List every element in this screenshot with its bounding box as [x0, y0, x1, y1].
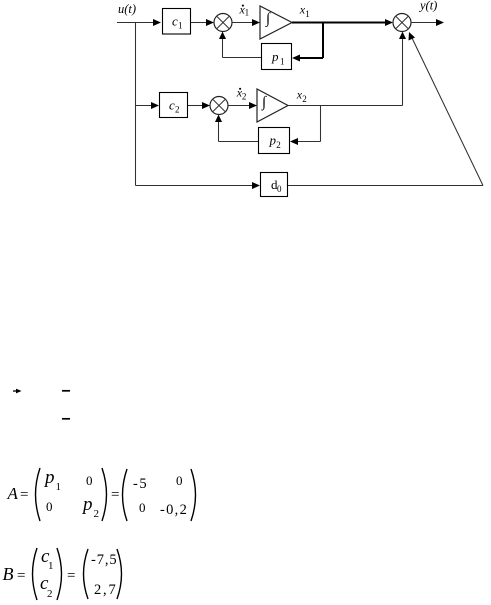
svg-text:=: = [111, 487, 119, 503]
equation A : close paren 2 [191, 469, 196, 521]
block p1 [262, 44, 292, 70]
svg-text:2: 2 [47, 588, 53, 600]
equation A : open paren 1 [36, 468, 41, 521]
svg-text:2: 2 [276, 140, 281, 150]
svg-text:0: 0 [139, 500, 146, 515]
output summing junction S3 [393, 14, 411, 32]
svg-text:p: p [81, 494, 93, 515]
svg-text:p: p [271, 49, 279, 64]
svg-text:1: 1 [178, 21, 183, 31]
svg-text:1: 1 [280, 57, 285, 67]
svg-text:1: 1 [245, 8, 250, 18]
wire output arrow y(t) [411, 22, 437, 24]
svg-text:2: 2 [175, 105, 180, 115]
wire summing junction 2 to integrator 2 [228, 105, 249, 107]
wire x1 output bold to output summing junction [292, 22, 386, 24]
svg-text:0: 0 [46, 499, 53, 514]
svg-text:y(t): y(t) [418, 0, 437, 13]
svg-text:-7,5: -7,5 [91, 552, 118, 568]
block d0 [261, 173, 288, 197]
svg-text:B: B [3, 564, 14, 584]
equation A : close paren 1 [102, 468, 107, 521]
svg-text:2,7: 2,7 [94, 582, 118, 598]
wire x2 output to output summing junction (right then up) [288, 105, 403, 107]
wire d0 output to bottom right corner [288, 185, 483, 187]
svg-text:p: p [269, 133, 277, 148]
svg-text:A: A [7, 484, 19, 503]
svg-text:2: 2 [94, 508, 100, 520]
wire u(t) input horizontal [117, 22, 154, 24]
wire x2 feedback down to p2 [320, 106, 322, 142]
stray overbar mark 1 [62, 390, 70, 392]
integrator 2 triangle [257, 89, 288, 122]
svg-text:u(t): u(t) [118, 2, 136, 16]
equation B : open paren 1 [33, 548, 38, 600]
svg-text:-5: -5 [133, 476, 148, 492]
svg-text:2: 2 [242, 92, 247, 102]
svg-text:0: 0 [86, 473, 93, 488]
svg-text:=: = [20, 487, 28, 503]
equation B : close paren 1 [57, 548, 62, 600]
svg-text:1: 1 [305, 9, 310, 19]
svg-text:-0,2: -0,2 [160, 502, 188, 518]
svg-text:2: 2 [302, 94, 307, 104]
wire c2 to summing junction 2 [188, 105, 203, 107]
equation A : open paren 2 [123, 469, 128, 521]
block p2 [259, 128, 290, 154]
wire diagonal from corner up to output summing junction [412, 38, 483, 186]
wire x1 feedback bold down to p1 [322, 23, 324, 59]
wire summing junction 1 to integrator 1 [232, 22, 252, 24]
summing junction S1 [214, 14, 232, 32]
equation B : close paren 2 [117, 549, 122, 599]
wire p2 back to summing junction 2 [219, 141, 259, 143]
svg-text:p: p [43, 467, 55, 488]
equation B : open paren 2 [84, 549, 89, 599]
svg-text:=: = [17, 568, 25, 584]
svg-text:1: 1 [48, 560, 54, 572]
wire p1 back to summing junction 1 [223, 57, 262, 59]
integrator 1 triangle [260, 6, 292, 39]
stray vector arrow mark [13, 390, 18, 392]
svg-text:0: 0 [176, 473, 183, 488]
stray overbar mark 2 [62, 418, 70, 420]
svg-text:=: = [67, 568, 75, 584]
summing junction S2 [210, 97, 228, 115]
svg-text:0: 0 [277, 184, 282, 194]
svg-text:1: 1 [56, 481, 62, 493]
block c1 [163, 9, 191, 35]
block c2 [160, 93, 188, 118]
wire row2 from branch to c2 [136, 105, 153, 107]
wire c1 to summing junction 1 [191, 22, 207, 24]
wire branch vertical from u(t) down to d0 row [135, 23, 137, 186]
wire d0 row from branch to d0 [136, 185, 254, 187]
